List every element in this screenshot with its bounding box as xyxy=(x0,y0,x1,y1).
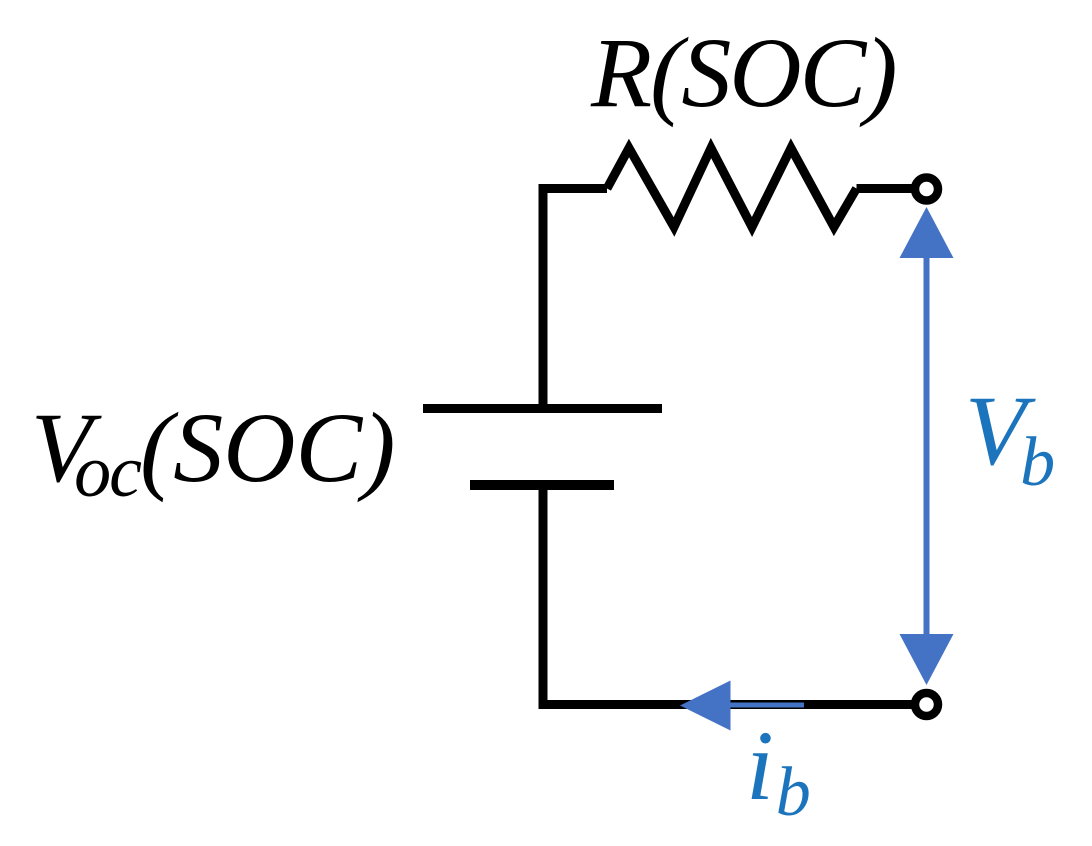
current arrow ib (blue, pointing left on bottom wire) xyxy=(680,681,804,731)
resistor R1 zigzag xyxy=(607,148,857,227)
svg-text:R(SOC): R(SOC) xyxy=(590,17,896,128)
wire: resistor right lead xyxy=(857,184,917,193)
label Voc(SOC) battery voltage xyxy=(31,392,395,513)
label R(SOC) value of resistor xyxy=(590,17,896,128)
node: top-right terminal circle xyxy=(915,178,938,201)
wire: left vertical + top lead into resistor xyxy=(543,189,607,409)
svg-text:Voc(SOC): Voc(SOC) xyxy=(31,392,395,513)
wire: bottom vertical + bottom horizontal xyxy=(543,490,914,705)
svg-text:Vb: Vb xyxy=(965,375,1055,501)
label ib battery current xyxy=(746,710,811,831)
svg-text:ib: ib xyxy=(746,710,811,831)
battery V1 bottom plate (short) xyxy=(470,480,614,490)
battery V1 top plate (long) xyxy=(423,404,662,413)
node: bottom-right terminal circle xyxy=(915,693,938,716)
voltage measurement arrow Vb (double-headed, blue) xyxy=(900,207,954,685)
label Vb terminal voltage xyxy=(965,375,1055,501)
